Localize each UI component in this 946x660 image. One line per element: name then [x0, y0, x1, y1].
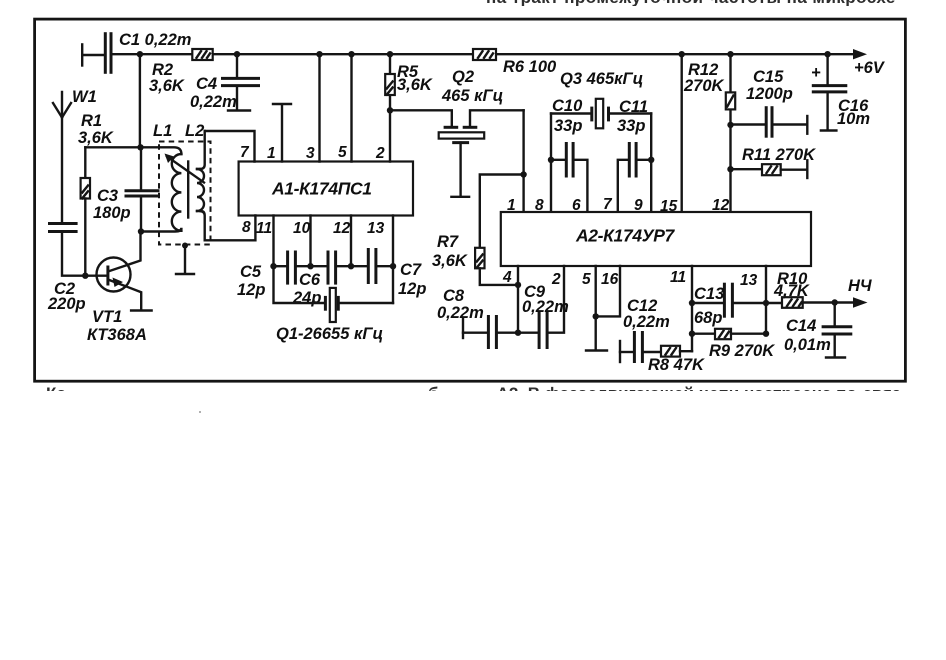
crystal Q1	[274, 266, 394, 343]
node pin13 junction	[390, 263, 396, 269]
svg-text:33p: 33p	[617, 117, 645, 135]
clipped text top	[486, 0, 896, 6]
svg-text:2: 2	[375, 145, 385, 162]
svg-text:270K: 270K	[683, 77, 725, 95]
core	[187, 162, 189, 218]
svg-text:15: 15	[660, 198, 678, 215]
svg-text:4: 4	[502, 269, 512, 286]
pin labels top A2	[507, 197, 516, 214]
resistor R1	[78, 112, 140, 276]
svg-text:C10: C10	[552, 97, 583, 115]
svg-text:0,22m: 0,22m	[190, 93, 237, 111]
svg-text:R1: R1	[81, 112, 102, 130]
svg-text:0,22m: 0,22m	[437, 304, 484, 322]
svg-text:9: 9	[634, 197, 643, 214]
svg-text:R9 270K: R9 270K	[709, 342, 775, 360]
svg-text:7: 7	[240, 144, 250, 161]
wire NCh output arrow	[835, 277, 872, 308]
svg-text:R6 100: R6 100	[503, 58, 557, 76]
resistor R5	[385, 63, 433, 95]
svg-text:1: 1	[507, 197, 516, 214]
svg-text:33p: 33p	[554, 117, 582, 135]
capacitor C3	[93, 147, 160, 231]
capacitor C14	[784, 303, 852, 358]
svg-text:8: 8	[535, 197, 544, 214]
svg-text:3,6K: 3,6K	[78, 129, 114, 147]
capacitor C2	[47, 224, 86, 314]
capacitor C15	[731, 68, 808, 138]
pin 5 ground	[582, 266, 607, 351]
resistor R9	[692, 329, 775, 360]
svg-text:КТ368А: КТ368А	[87, 326, 147, 344]
antenna W1	[53, 88, 97, 223]
svg-text:11: 11	[256, 220, 272, 237]
capacitor C11	[617, 98, 651, 212]
wire Q3 right to pin 9	[648, 114, 654, 212]
resistor R11	[731, 146, 817, 178]
svg-text:C4: C4	[196, 75, 217, 93]
pin 13	[740, 266, 769, 337]
svg-text:3,6K: 3,6K	[149, 77, 185, 95]
svg-text:12: 12	[333, 220, 351, 237]
svg-text:L1: L1	[153, 122, 172, 140]
svg-text:R7: R7	[437, 233, 459, 251]
resistor R7	[432, 175, 524, 285]
svg-text:220p: 220p	[47, 295, 86, 313]
svg-text:C5: C5	[240, 263, 262, 281]
clipped text bottom	[46, 385, 926, 392]
svg-text:3,6K: 3,6K	[432, 252, 468, 270]
svg-text:7: 7	[603, 196, 613, 213]
svg-text:R11 270K: R11 270K	[742, 146, 816, 164]
svg-text:11: 11	[670, 269, 686, 286]
pin 1 stub	[267, 104, 291, 162]
capacitor C9	[518, 266, 569, 349]
capacitor C10	[551, 97, 587, 212]
svg-text:3: 3	[306, 145, 315, 162]
capacitor C4	[190, 54, 260, 111]
wire Q3 left to pin 8	[548, 114, 554, 212]
svg-text:13: 13	[367, 220, 385, 237]
svg-text:0,22m: 0,22m	[623, 313, 670, 331]
svg-text:C7: C7	[400, 261, 422, 279]
crystal Q2	[390, 68, 524, 197]
svg-text:8: 8	[242, 219, 251, 236]
svg-text:L2: L2	[185, 122, 204, 140]
pin 11	[256, 216, 274, 267]
svg-text:C8: C8	[443, 287, 465, 305]
svg-text:C13: C13	[694, 285, 724, 303]
resistor R2	[149, 49, 213, 95]
node pin10 junction	[307, 263, 313, 269]
wire rail to pin 15	[679, 51, 685, 212]
svg-text:24p: 24p	[292, 289, 321, 307]
transistor VT1	[85, 232, 151, 345]
pin 16	[596, 266, 620, 316]
capacitor C16 electrolytic	[811, 51, 870, 131]
svg-text:А1-К174ПС1: А1-К174ПС1	[271, 179, 372, 199]
svg-text:10m: 10m	[837, 110, 870, 128]
node tank bottom	[138, 228, 144, 234]
svg-text:13: 13	[740, 272, 758, 289]
svg-text:Q2: Q2	[452, 68, 474, 86]
wire Q2 to pin1 A2	[520, 110, 526, 212]
pin 13	[367, 216, 393, 267]
capacitor C1	[82, 31, 191, 74]
resistor R10	[766, 270, 835, 308]
speck	[199, 411, 201, 413]
svg-text:+6V: +6V	[854, 59, 886, 77]
+6V arrow head	[853, 49, 867, 59]
pin 7	[205, 131, 255, 162]
resistor R6	[473, 49, 557, 76]
shield ground stub	[176, 243, 194, 275]
capacitor C13	[692, 283, 766, 327]
frame border	[35, 19, 906, 381]
svg-text:C11: C11	[619, 98, 648, 116]
svg-text:VT1: VT1	[92, 308, 122, 326]
svg-text:5: 5	[582, 271, 591, 288]
wire C1 node down to tank	[139, 54, 141, 147]
wire +6V top rail	[111, 53, 860, 55]
capacitor C8	[437, 285, 521, 349]
node VT1 base junction	[82, 273, 88, 279]
node C1/R2 junction	[137, 51, 143, 57]
resistor R12 line to pin 12	[683, 51, 735, 212]
inductor L2	[185, 122, 205, 240]
node pin12 junction	[348, 263, 354, 269]
+6V label	[854, 59, 886, 77]
svg-text:C3: C3	[97, 187, 118, 205]
IC A1 K174PS1	[239, 162, 413, 216]
svg-text:16: 16	[601, 271, 619, 288]
svg-text:10: 10	[293, 220, 311, 237]
svg-text:C1 0,22m: C1 0,22m	[119, 31, 191, 49]
svg-text:68p: 68p	[694, 309, 722, 327]
capacitor C7	[351, 248, 426, 298]
svg-text:12: 12	[712, 197, 730, 214]
svg-text:0,22m: 0,22m	[522, 298, 569, 316]
node tank top	[137, 144, 143, 150]
pin 2 / R5 line	[375, 51, 393, 162]
IC A2 K174UR7	[501, 212, 811, 266]
svg-text:А2-К174УР7: А2-К174УР7	[575, 226, 676, 246]
svg-text:12p: 12p	[398, 280, 426, 298]
svg-text:6: 6	[572, 197, 581, 214]
svg-text:НЧ: НЧ	[848, 277, 872, 295]
capacitor C6	[292, 251, 351, 308]
node C4 top	[234, 51, 240, 57]
svg-text:1200p: 1200p	[746, 85, 793, 103]
svg-text:W1: W1	[72, 88, 97, 106]
svg-text:C14: C14	[786, 317, 816, 335]
svg-text:12p: 12p	[237, 281, 265, 299]
pin 12	[333, 216, 351, 267]
capacitor C5	[237, 251, 311, 300]
pin 3	[306, 51, 323, 162]
node output	[832, 299, 838, 305]
svg-text:Q1-26655 кГц: Q1-26655 кГц	[276, 325, 383, 343]
svg-text:2: 2	[551, 271, 561, 288]
svg-text:3,6K: 3,6K	[397, 76, 433, 94]
svg-text:C6: C6	[299, 271, 321, 289]
dashed shield box L1/L2	[159, 142, 211, 245]
svg-text:0,01m: 0,01m	[784, 336, 831, 354]
capacitor C12	[620, 297, 670, 363]
pin 4	[502, 266, 521, 288]
A1 bottom pin 8	[205, 216, 256, 241]
crystal Q3	[551, 70, 651, 128]
svg-text:5: 5	[338, 144, 347, 161]
pin 10	[293, 216, 311, 267]
pin 5	[338, 51, 355, 162]
pin 11	[670, 266, 695, 351]
svg-text:+: +	[811, 64, 821, 82]
svg-text:180p: 180p	[93, 204, 131, 222]
svg-text:Q3 465кГц: Q3 465кГц	[560, 70, 643, 88]
svg-text:4,7K: 4,7K	[773, 282, 810, 300]
svg-text:465 кГц: 465 кГц	[441, 87, 503, 105]
svg-text:1: 1	[267, 145, 276, 162]
inductor L1	[141, 122, 181, 232]
resistor R8	[648, 346, 705, 374]
svg-text:C15: C15	[753, 68, 784, 86]
L1 tuning arrow	[165, 154, 205, 183]
svg-text:R8 47K: R8 47K	[648, 356, 705, 374]
